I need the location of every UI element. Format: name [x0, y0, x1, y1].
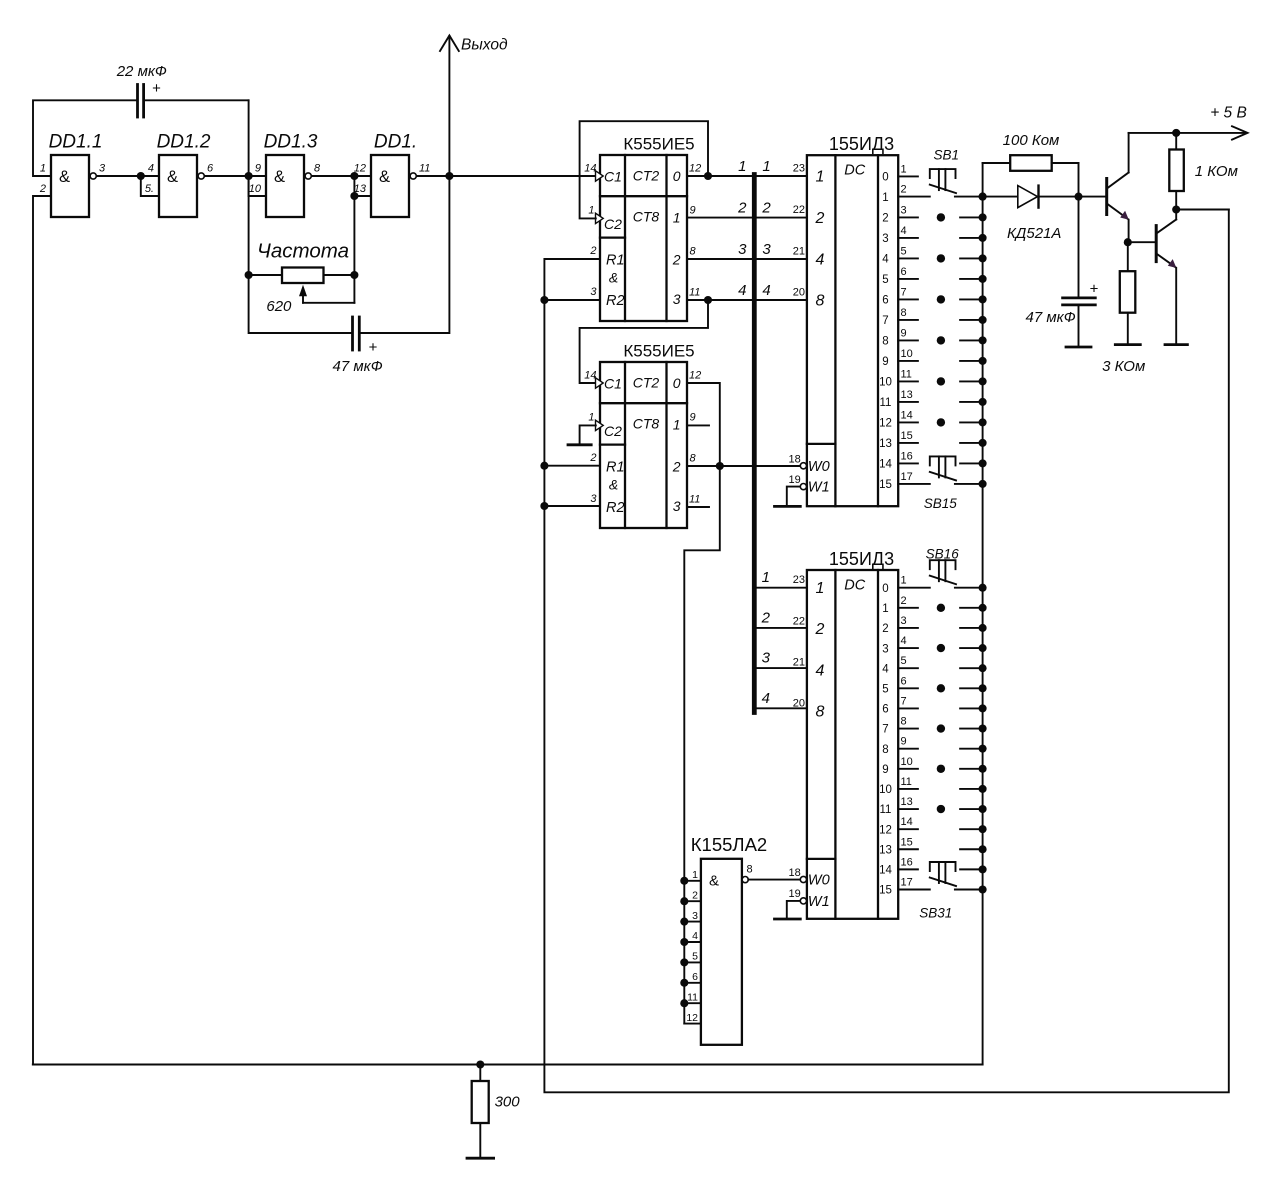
svg-text:13: 13 — [879, 844, 892, 856]
svg-text:3: 3 — [762, 650, 771, 667]
svg-text:8: 8 — [882, 336, 888, 348]
wire node B down to pot wiper — [353, 176, 355, 303]
junction dots on switch bus (decoder DD3dec rows) — [979, 193, 987, 488]
capacitor C1 22 мкФ — [116, 63, 249, 117]
decoder DD3dec output number labels 0-15 — [879, 172, 892, 492]
svg-text:8: 8 — [747, 864, 753, 876]
svg-text:DC: DC — [844, 163, 865, 179]
svg-text:&: & — [609, 477, 618, 493]
svg-text:5: 5 — [882, 274, 888, 286]
resistor R2 100 Ком — [1003, 132, 1079, 197]
svg-text:3: 3 — [901, 615, 907, 627]
pushbutton switch SB1 — [898, 148, 982, 197]
junction dots on switch bus (decoder DD4 rows) — [979, 584, 987, 894]
svg-text:R1: R1 — [606, 253, 625, 269]
svg-text:8: 8 — [901, 307, 907, 319]
ellipsis dots SB17..SB30 — [937, 604, 945, 814]
svg-text:15: 15 — [879, 479, 892, 491]
junction dot R1 DD3 — [540, 462, 548, 470]
wire DD2 output 0 (pin12) to decoder — [687, 175, 807, 177]
svg-text:W1: W1 — [808, 480, 830, 496]
svg-text:2: 2 — [672, 459, 681, 475]
svg-text:КД521А: КД521А — [1007, 225, 1061, 242]
svg-text:22 мкФ: 22 мкФ — [116, 63, 167, 80]
junction dot output node — [445, 172, 453, 180]
wire DD1.1 pin2 to common bottom rail — [33, 196, 51, 1065]
svg-text:DD1.1: DD1.1 — [49, 132, 103, 153]
wire bus top to resistor 100 Ком — [983, 162, 1011, 164]
junction dot R2 DD2 — [540, 296, 548, 304]
svg-text:155ИД3: 155ИД3 — [829, 549, 894, 569]
ground Q2 emitter — [1165, 343, 1187, 346]
svg-text:2: 2 — [737, 200, 747, 217]
svg-text:4: 4 — [148, 163, 154, 175]
svg-text:+: + — [152, 80, 161, 97]
decoder DD3dec plain output rows — [898, 176, 982, 463]
svg-text:4: 4 — [901, 225, 907, 237]
svg-text:1: 1 — [673, 210, 681, 226]
svg-text:DD1.3: DD1.3 — [264, 132, 318, 153]
wire DD1.4 output to counter DD2 C1 (main clock net) — [417, 175, 600, 177]
junction dot pot left — [245, 271, 253, 279]
junction dot Q1 emitter / Q2 base node — [1124, 238, 1132, 246]
svg-text:CT8: CT8 — [633, 416, 660, 432]
svg-text:1: 1 — [882, 192, 888, 204]
junction dot common rail / R3 — [476, 1060, 484, 1068]
svg-text:9: 9 — [901, 736, 907, 748]
svg-text:14: 14 — [901, 816, 913, 828]
svg-text:&: & — [59, 168, 70, 186]
svg-text:SB16: SB16 — [926, 547, 960, 562]
decoder DD3dec 155ИД3 body — [807, 134, 898, 506]
svg-text:Выход: Выход — [461, 37, 508, 54]
svg-text:6: 6 — [882, 295, 888, 307]
svg-text:8: 8 — [690, 246, 697, 258]
svg-text:1: 1 — [762, 158, 770, 175]
svg-text:CT8: CT8 — [633, 209, 660, 225]
svg-text:3: 3 — [692, 910, 698, 922]
svg-text:2: 2 — [901, 595, 907, 607]
svg-text:К555ИЕ5: К555ИЕ5 — [623, 135, 694, 154]
svg-text:0: 0 — [673, 168, 681, 184]
svg-text:C1: C1 — [604, 168, 622, 184]
svg-text:3: 3 — [673, 291, 681, 307]
svg-text:17: 17 — [901, 877, 913, 889]
svg-text:13: 13 — [879, 438, 892, 450]
svg-text:1: 1 — [588, 412, 594, 424]
wire 47uF right plate to output net — [359, 176, 449, 333]
decoder DD4 output number labels 0-15 — [879, 583, 892, 897]
wire Q1 emitter node to Q2 base — [1128, 241, 1155, 243]
svg-text:3: 3 — [882, 643, 888, 655]
svg-text:SB31: SB31 — [919, 905, 952, 920]
svg-text:3: 3 — [901, 204, 907, 216]
svg-text:К555ИЕ5: К555ИЕ5 — [623, 342, 694, 361]
svg-text:&: & — [379, 168, 390, 186]
junction dot diode cathode node — [1074, 193, 1082, 201]
svg-text:1: 1 — [673, 417, 681, 433]
svg-text:2: 2 — [882, 213, 888, 225]
svg-text:0: 0 — [882, 583, 888, 595]
svg-text:18: 18 — [789, 453, 801, 465]
wire DD2 output 2 (pin8) to decoder — [687, 258, 807, 260]
svg-text:1: 1 — [901, 575, 907, 587]
svg-text:&: & — [274, 168, 285, 186]
resistor R5 1 КОм — [1169, 133, 1238, 210]
svg-text:0: 0 — [882, 172, 888, 184]
svg-text:4: 4 — [738, 282, 746, 299]
svg-text:9: 9 — [690, 205, 696, 217]
svg-text:22: 22 — [793, 615, 805, 627]
svg-text:W0: W0 — [808, 459, 830, 475]
svg-text:14: 14 — [901, 409, 913, 421]
svg-text:11: 11 — [689, 494, 700, 506]
gate DD5 К155ЛА2 body — [691, 834, 767, 1045]
svg-text:Частота: Частота — [257, 240, 349, 263]
logic gate DD1.1 — [39, 132, 106, 218]
svg-text:C1: C1 — [604, 375, 622, 391]
transistor Q1 (VT1) — [1107, 133, 1129, 242]
svg-text:11: 11 — [689, 287, 700, 299]
svg-text:R2: R2 — [606, 293, 625, 309]
wire DD2 pin11 down to DD3 C1 — [580, 300, 708, 383]
svg-text:1: 1 — [692, 869, 698, 881]
svg-text:23: 23 — [793, 574, 805, 586]
svg-text:4: 4 — [692, 930, 698, 942]
svg-text:8: 8 — [882, 744, 888, 756]
svg-text:2: 2 — [692, 889, 698, 901]
svg-text:13: 13 — [354, 183, 367, 195]
svg-text:8: 8 — [314, 163, 321, 175]
svg-text:6: 6 — [207, 163, 214, 175]
pushbutton switch SB15 — [898, 456, 982, 510]
svg-text:12: 12 — [689, 163, 701, 175]
svg-text:13: 13 — [901, 796, 913, 808]
svg-text:21: 21 — [793, 245, 805, 257]
decoder DD4 W1 ground bar — [775, 918, 801, 921]
wire collector node to right rail — [1176, 209, 1229, 211]
svg-text:3: 3 — [590, 286, 597, 298]
wire DD1.1 output to DD1.2 inputs — [97, 176, 159, 196]
svg-text:12: 12 — [354, 163, 366, 175]
svg-text:1 КОм: 1 КОм — [1195, 163, 1238, 180]
capacitor C2 47 мкФ — [333, 317, 383, 375]
resistor R3 300 — [472, 1065, 521, 1159]
decoder DD3dec input labels 1 2 4 8 and pin numbers — [793, 162, 825, 309]
junction dot bus / diode anode — [979, 193, 987, 201]
svg-text:22: 22 — [793, 204, 805, 216]
svg-text:8: 8 — [690, 453, 697, 465]
svg-text:SB15: SB15 — [924, 496, 958, 511]
svg-text:6: 6 — [901, 675, 907, 687]
svg-text:14: 14 — [584, 370, 596, 382]
junction dot DD1.2 input — [137, 172, 145, 180]
decoder DD3dec W1 ground bar — [775, 505, 801, 508]
svg-text:16: 16 — [901, 450, 913, 462]
svg-text:15: 15 — [901, 836, 913, 848]
svg-text:+ 5 В: + 5 В — [1210, 105, 1247, 122]
svg-text:100 Ком: 100 Ком — [1003, 132, 1060, 149]
counter DD3 К555ИЕ5 body — [584, 342, 701, 529]
ground C3 — [1066, 346, 1091, 349]
svg-text:4: 4 — [882, 663, 889, 675]
decoder DD4 input labels 1 2 4 8 and pin numbers — [793, 574, 825, 721]
svg-text:3: 3 — [99, 163, 106, 175]
gate DD5 input wires and pin numbers — [684, 869, 701, 1024]
svg-text:4: 4 — [816, 251, 825, 268]
svg-text:2: 2 — [761, 609, 771, 626]
svg-text:1: 1 — [40, 163, 46, 175]
svg-text:6: 6 — [901, 266, 907, 278]
wire common bottom rail — [33, 1064, 983, 1066]
svg-text:&: & — [709, 873, 719, 890]
pushbutton switch SB31 — [898, 862, 982, 920]
svg-text:7: 7 — [882, 315, 888, 327]
wire DD3 pin9 stub — [687, 424, 709, 426]
svg-text:5.: 5. — [145, 183, 154, 195]
decoder DD4 155ИД3 body — [807, 549, 898, 919]
wire DD3 pin12 output down — [684, 383, 720, 1024]
svg-text:1: 1 — [882, 603, 888, 615]
svg-text:8: 8 — [816, 292, 825, 309]
svg-text:14: 14 — [584, 163, 596, 175]
svg-text:DD1.2: DD1.2 — [157, 132, 211, 153]
ground R3 — [467, 1157, 494, 1160]
svg-text:11: 11 — [901, 368, 912, 380]
wire counter DD3 R2 — [544, 505, 600, 507]
svg-text:11: 11 — [687, 991, 698, 1003]
counter DD2 К555ИЕ5 body — [584, 135, 701, 322]
svg-text:11: 11 — [419, 163, 430, 175]
svg-text:SB1: SB1 — [934, 148, 960, 163]
wire feedback from 22uF cap to DD1.1 pin1 — [33, 100, 138, 176]
svg-text:2: 2 — [761, 200, 771, 217]
wire DD1.2 output to DD1.3 inputs (node A) — [205, 176, 266, 196]
svg-text:11: 11 — [880, 804, 892, 816]
svg-text:300: 300 — [495, 1094, 521, 1111]
svg-text:9: 9 — [255, 163, 261, 175]
wire DD3 C2 to common bar — [580, 425, 596, 444]
logic gate DD1.3 — [249, 132, 321, 218]
switch common bus vertical — [982, 163, 984, 1065]
junction dot DD2 pin11 — [704, 296, 712, 304]
svg-text:2: 2 — [39, 183, 46, 195]
svg-text:1: 1 — [738, 158, 746, 175]
decoder DD3dec W1 wire to common bar — [787, 487, 800, 507]
svg-text:CT2: CT2 — [633, 374, 660, 390]
svg-text:1: 1 — [762, 569, 770, 586]
svg-text:13: 13 — [901, 389, 913, 401]
svg-text:10: 10 — [879, 784, 892, 796]
+5V arrow — [1210, 105, 1247, 140]
svg-text:12: 12 — [879, 824, 892, 836]
junction dot Q2 collector node — [1172, 205, 1180, 213]
svg-text:1: 1 — [588, 205, 594, 217]
svg-text:+: + — [369, 339, 378, 356]
wire DD5 output to decoder DD4 W0 — [748, 879, 800, 881]
svg-text:4: 4 — [762, 690, 770, 707]
junction dot +5V — [1172, 129, 1180, 137]
wire DD2 output 1 (pin9) to decoder — [687, 217, 807, 219]
wire reset rail (R1 R2 of counters) down to bottom — [544, 210, 1228, 1093]
svg-text:11: 11 — [880, 397, 892, 409]
svg-text:9: 9 — [690, 412, 696, 424]
svg-text:21: 21 — [793, 657, 805, 669]
svg-text:4: 4 — [816, 662, 825, 679]
svg-text:4: 4 — [882, 254, 889, 266]
junction dot R2 DD3 — [540, 502, 548, 510]
svg-text:+: + — [1090, 281, 1099, 298]
svg-text:&: & — [167, 168, 178, 186]
svg-text:3: 3 — [673, 498, 681, 514]
svg-text:19: 19 — [789, 888, 801, 900]
wire DD1.3 output to DD1.4 inputs (node B) — [312, 176, 371, 196]
junction dot pot right — [350, 271, 358, 279]
svg-text:9: 9 — [901, 327, 907, 339]
junction dots node B — [350, 172, 358, 180]
wire 22uF right plate down to node A — [248, 100, 250, 176]
svg-text:2: 2 — [815, 621, 825, 638]
svg-text:2: 2 — [589, 245, 596, 257]
svg-text:47 мкФ: 47 мкФ — [333, 358, 383, 375]
svg-text:3: 3 — [590, 493, 597, 505]
svg-text:1: 1 — [816, 580, 825, 597]
decoder DD3dec output pin numbers — [901, 163, 913, 483]
svg-text:17: 17 — [901, 471, 913, 483]
logic gate DD1.4 — [354, 132, 431, 218]
svg-text:5: 5 — [901, 655, 907, 667]
wire switch-bus node to transistor base (diode net) — [983, 196, 1106, 198]
logic gate DD1.2 — [145, 132, 214, 218]
svg-text:5: 5 — [901, 245, 907, 257]
svg-text:1: 1 — [816, 168, 825, 185]
wire DD3 pin8 to decoder DD4 W0 — [687, 465, 800, 467]
svg-text:2: 2 — [901, 184, 907, 196]
svg-text:47 мкФ: 47 мкФ — [1026, 309, 1076, 326]
bus wire labels 1 2 3 4 — [737, 158, 771, 299]
svg-text:4: 4 — [762, 282, 770, 299]
svg-text:R1: R1 — [606, 460, 625, 476]
svg-text:8: 8 — [901, 716, 907, 728]
pushbutton switch SB16 — [898, 547, 982, 588]
svg-text:9: 9 — [882, 356, 888, 368]
svg-text:3: 3 — [762, 241, 771, 258]
svg-text:5: 5 — [882, 684, 888, 696]
junction dot node A — [245, 172, 253, 180]
svg-text:23: 23 — [793, 162, 805, 174]
wire DD3 pin11 stub — [687, 506, 709, 508]
svg-text:&: & — [609, 270, 618, 286]
svg-text:7: 7 — [901, 695, 907, 707]
decoder DD4 W1 wire to common bar — [787, 901, 800, 919]
svg-text:1: 1 — [901, 163, 907, 175]
wire counter DD2 R2 — [544, 299, 600, 301]
svg-text:14: 14 — [879, 865, 892, 877]
ground R4 — [1115, 343, 1140, 346]
svg-text:CT2: CT2 — [633, 167, 660, 183]
svg-text:10: 10 — [879, 377, 892, 389]
svg-text:3 КОм: 3 КОм — [1102, 358, 1145, 375]
decoder DD4 input stubs from bus — [754, 569, 807, 708]
svg-text:W1: W1 — [808, 894, 830, 910]
svg-text:6: 6 — [692, 971, 698, 983]
svg-text:10: 10 — [901, 756, 913, 768]
wire counter DD3 R1 — [544, 465, 600, 467]
transistor Q2 (VT2) — [1156, 210, 1176, 345]
svg-text:2: 2 — [815, 210, 825, 227]
svg-text:155ИД3: 155ИД3 — [829, 134, 894, 154]
decoder DD4 output pin numbers — [901, 575, 913, 889]
svg-text:W0: W0 — [808, 873, 830, 889]
svg-text:9: 9 — [882, 764, 888, 776]
wire DD2 output 3 (pin11) to decoder — [687, 299, 807, 301]
svg-text:15: 15 — [879, 885, 892, 897]
svg-text:6: 6 — [882, 704, 888, 716]
svg-text:DD1.: DD1. — [374, 132, 417, 153]
output arrow Выход — [440, 36, 508, 177]
svg-text:15: 15 — [901, 430, 913, 442]
bus line (4-bit bundle) — [752, 175, 757, 713]
wire node A down to 47uF cap — [249, 176, 353, 333]
wire DD2 feedback pin12 to C2 — [580, 121, 708, 218]
svg-text:2: 2 — [672, 252, 681, 268]
svg-text:10: 10 — [901, 348, 913, 360]
svg-text:14: 14 — [879, 459, 892, 471]
ground bar DD3 C2 — [568, 443, 591, 446]
resistor R4 3 КОм — [1102, 242, 1145, 375]
svg-text:3: 3 — [738, 241, 747, 258]
svg-text:C2: C2 — [604, 216, 622, 232]
decoder DD3dec W0 W1 inputs — [789, 453, 830, 495]
svg-text:4: 4 — [901, 635, 907, 647]
svg-text:12: 12 — [879, 418, 892, 430]
svg-text:16: 16 — [901, 856, 913, 868]
svg-text:20: 20 — [793, 286, 805, 298]
svg-text:3: 3 — [882, 233, 888, 245]
decoder DD4 W0 W1 inputs — [789, 867, 830, 910]
svg-text:8: 8 — [816, 704, 825, 721]
diode VD1 КД521А — [1007, 186, 1061, 242]
junction dot DD2 pin12 — [704, 172, 712, 180]
capacitor C3 47 мкФ — [1026, 197, 1099, 347]
svg-text:620: 620 — [266, 298, 292, 315]
svg-text:5: 5 — [692, 951, 698, 963]
junction dots gate DD5 inputs — [680, 877, 688, 1008]
svg-text:C2: C2 — [604, 423, 622, 439]
svg-text:0: 0 — [673, 375, 681, 391]
svg-text:18: 18 — [789, 867, 801, 879]
potentiometer R1 620 — [249, 268, 355, 316]
svg-text:11: 11 — [901, 776, 912, 788]
svg-text:12: 12 — [686, 1012, 698, 1024]
svg-text:10: 10 — [249, 183, 262, 195]
svg-text:12: 12 — [689, 370, 701, 382]
svg-text:7: 7 — [882, 724, 888, 736]
svg-text:2: 2 — [589, 452, 596, 464]
svg-text:R2: R2 — [606, 500, 625, 516]
svg-text:К155ЛА2: К155ЛА2 — [691, 834, 767, 855]
svg-text:DC: DC — [844, 577, 865, 593]
svg-text:19: 19 — [789, 474, 801, 486]
ellipsis dots SB2..SB14 — [937, 213, 945, 426]
svg-text:7: 7 — [901, 286, 907, 298]
decoder DD4 plain output rows — [898, 608, 982, 870]
junction dot DD3 pin8 net — [716, 462, 724, 470]
wire +5V rail — [1129, 132, 1247, 134]
svg-text:2: 2 — [882, 623, 888, 635]
